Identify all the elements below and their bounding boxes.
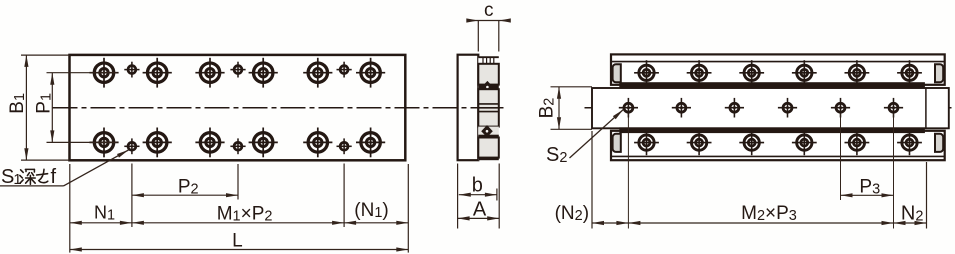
svg-text:P1​: P1​ — [34, 93, 55, 114]
svg-text:f: f — [51, 166, 57, 188]
table through hole S2 1 — [619, 98, 638, 118]
bottom rail hole 2 — [687, 130, 712, 155]
middle view: right column rail stack — [478, 57, 499, 160]
svg-text:M2​×P3​: M2​×P3​ — [741, 203, 797, 224]
table through hole S2 3 — [725, 98, 744, 118]
small screw hole S1 top 2 — [230, 62, 245, 78]
svg-text:b: b — [472, 174, 483, 196]
svg-text:B1​: B1​ — [7, 93, 28, 114]
bottom rail hole 1 — [634, 130, 659, 155]
counterbored hole top row 2 — [143, 58, 172, 88]
counterbored hole bottom row 6 — [356, 128, 385, 158]
dimension A — [458, 164, 500, 229]
small screw hole S1 top 1 — [124, 62, 139, 78]
label S1 depth f with leader — [0, 150, 129, 188]
dimension b — [458, 164, 497, 229]
svg-text:P2​: P2​ — [178, 176, 199, 197]
top rail hole 2 — [687, 60, 712, 85]
svg-text:S1: S1 — [1, 166, 22, 188]
top rail hole 6 — [897, 60, 922, 85]
dimension L (overall length) — [70, 231, 409, 252]
dimension P1 (hole row spacing) — [34, 73, 117, 143]
dimension (N2) — [555, 203, 629, 225]
dimension P3 — [841, 177, 894, 198]
svg-text:S2​: S2​ — [546, 144, 567, 166]
svg-text:(N2​): (N2​) — [555, 203, 589, 224]
table through hole S2 5 — [831, 98, 850, 118]
counterbored hole top row 6 — [356, 58, 385, 88]
top rail hole 4 — [792, 60, 817, 85]
dimension c (top) — [466, 0, 511, 51]
label S2 with leader — [546, 110, 623, 166]
top rail hole 5 — [845, 60, 870, 85]
svg-text:B2​: B2​ — [537, 98, 558, 119]
middle view: end elevation left column — [458, 55, 479, 161]
right view: bottom rail band — [611, 127, 945, 160]
counterbored hole bottom row 3 — [195, 128, 224, 158]
small screw hole S1 bottom 2 — [230, 138, 245, 154]
counterbored hole top row 3 — [195, 58, 224, 88]
small screw hole S1 bottom 1 — [124, 138, 139, 154]
counterbored hole bottom row 4 — [249, 128, 278, 158]
dimension (N1) — [344, 200, 408, 225]
counterbored hole top row 4 — [249, 58, 278, 88]
extension lines below left view — [70, 164, 409, 253]
top band right end cap — [935, 64, 943, 82]
counterbored hole bottom row 2 — [143, 128, 172, 158]
counterbored hole bottom row 5 — [303, 128, 332, 158]
svg-text:L: L — [232, 231, 243, 252]
svg-text:P3​: P3​ — [859, 177, 880, 198]
chain centerline through left and middle views — [53, 107, 504, 109]
counterbored hole bottom row 1 — [89, 128, 118, 158]
small screw hole S1 bottom 3 — [337, 138, 352, 154]
bottom rail hole 3 — [739, 130, 764, 155]
bottom band left end cap — [613, 134, 621, 152]
dimension N1 — [70, 203, 132, 225]
right view: centerline — [585, 107, 953, 109]
right view: middle table band — [592, 88, 949, 128]
svg-text:N1​: N1​ — [94, 203, 115, 224]
counterbored hole top row 5 — [303, 58, 332, 88]
bottom rail hole 6 — [897, 130, 922, 155]
svg-text:M1​×P2​: M1​×P2​ — [217, 203, 273, 224]
svg-text:(N1​): (N1​) — [354, 200, 388, 221]
dimension M2 x P3 — [628, 203, 893, 225]
svg-text:c: c — [484, 0, 494, 21]
left view: table plate outline — [70, 55, 406, 160]
top rail hole 3 — [739, 60, 764, 85]
dimension B2 — [537, 87, 592, 130]
counterbored hole top row 1 — [89, 58, 118, 88]
dimension P2 — [132, 176, 238, 197]
right view: top rail band — [611, 54, 945, 88]
table through hole S2 2 — [672, 98, 691, 118]
extension lines below right view — [592, 114, 927, 229]
svg-text:N2​: N2​ — [901, 203, 924, 225]
bottom rail hole 4 — [792, 130, 817, 155]
dimension M1 x P2 — [132, 203, 344, 225]
dimension N2 — [894, 203, 927, 226]
table through hole S2 4 — [778, 98, 797, 118]
top rail hole 1 — [634, 60, 659, 85]
table through hole S2 6 — [884, 98, 903, 118]
bottom rail hole 5 — [845, 130, 870, 155]
small screw hole S1 top 3 — [337, 62, 352, 78]
bottom band right end cap — [935, 134, 943, 152]
dimension B1 (plate width) — [7, 55, 70, 160]
top band left end cap — [613, 64, 621, 82]
svg-text:A: A — [473, 198, 487, 220]
